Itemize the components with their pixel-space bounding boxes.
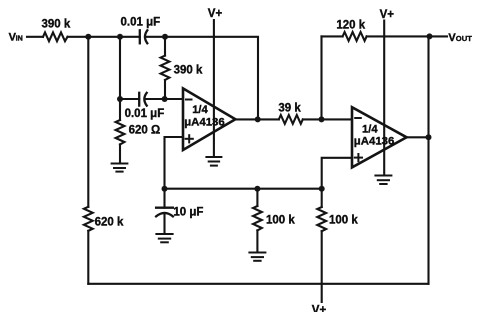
resistor R3 620 ohm (vertical) (116, 99, 161, 163)
svg-text:OUT: OUT (456, 34, 472, 43)
svg-text:1/4: 1/4 (192, 104, 208, 116)
node A junction (85, 34, 91, 40)
svg-text:100 k: 100 k (266, 215, 295, 227)
resistor R5 100 k (left, vertical) (253, 189, 295, 252)
node U1 output junction (255, 116, 261, 122)
wire C1 to node C (145, 36, 165, 38)
svg-text:V+: V+ (380, 9, 395, 21)
wire node E up to R8 (320, 36, 322, 119)
power V+ (top right) (380, 9, 395, 174)
svg-text:390 k: 390 k (42, 19, 71, 31)
node B2 junction (117, 96, 123, 102)
wire U1 plus input (165, 137, 184, 189)
wire corner to R8 (322, 35, 343, 37)
ground (C3 10 uF) (156, 234, 172, 242)
wire R8 to VOUT node (367, 35, 447, 37)
power V+ (top left) (208, 8, 223, 156)
wire R1 to node A (68, 36, 121, 38)
wire node D to U1 inverting input (165, 98, 183, 100)
wire node B down to C2 line (119, 37, 121, 99)
node E junction (U2 inverting) (319, 116, 325, 122)
wire bottom feedback (88, 283, 428, 285)
capacitor C3 10 uF (vertical) (156, 189, 203, 233)
svg-text:V+: V+ (312, 305, 327, 312)
wire node A down left side (87, 37, 89, 207)
svg-text:39 k: 39 k (278, 102, 301, 114)
wire VIN to R1 (27, 36, 43, 38)
svg-text:100 k: 100 k (329, 214, 358, 226)
capacitor C1 0.01 uF (top) (140, 30, 148, 43)
ground (U2 negative supply) (375, 176, 391, 185)
resistor R7 39 k (horizontal) (279, 115, 303, 124)
wire node B to C1 (120, 36, 140, 38)
svg-text:390 k: 390 k (174, 64, 203, 76)
node F junction (10 uF) (162, 186, 168, 192)
wire U2 plus input (322, 158, 352, 189)
svg-text:μA4136: μA4136 (184, 117, 225, 129)
svg-text:120 k: 120 k (336, 19, 365, 31)
node C junction (162, 34, 168, 40)
svg-text:V+: V+ (208, 8, 223, 20)
wire middle horizontal (bias rail) (165, 188, 322, 190)
wire right side vertical (VOUT to bottom) (427, 36, 429, 283)
node G junction (100 k left) (254, 186, 260, 192)
svg-text:IN: IN (16, 33, 23, 42)
svg-text:0.01 μF: 0.01 μF (125, 108, 165, 120)
capacitor C2 0.01 uF (second) (139, 93, 147, 106)
svg-text:620 Ω: 620 Ω (129, 125, 161, 137)
ground (U1 negative supply) (206, 157, 221, 166)
svg-text:620 k: 620 k (95, 216, 124, 228)
node VOUT junction (427, 33, 433, 39)
node VIN label (9, 31, 23, 43)
wire R7 to U2 inverting input (303, 118, 352, 120)
svg-text:1/4: 1/4 (362, 124, 378, 136)
ground (R3 620 ohm) (112, 164, 128, 172)
resistor R2 390 k (feedback, vertical) (161, 37, 203, 99)
resistor R8 120 k (feedback, horizontal) (343, 32, 367, 41)
resistor R1 390 k (input, horizontal) (43, 32, 68, 41)
svg-text:10 μF: 10 μF (173, 206, 203, 218)
resistor R6 100 k (right, vertical) (317, 189, 358, 302)
node H junction (100 k right) (319, 186, 325, 192)
svg-text:0.01 μF: 0.01 μF (121, 17, 161, 29)
op-amp U2 1/4 uA4136 (352, 107, 407, 167)
node VOUT label (448, 32, 472, 44)
node U2 output junction (426, 134, 432, 140)
wire feedback top: node C to above U1 output (165, 37, 258, 120)
wire U2 output (407, 136, 429, 138)
wire U1 output to R7 (235, 118, 278, 120)
resistor R4 620 k (left, vertical) (84, 207, 124, 284)
node B junction (117, 34, 123, 40)
ground (R5 100 k) (249, 253, 265, 261)
op-amp U1 1/4 uA4136 (183, 88, 235, 150)
node D junction (162, 96, 168, 102)
svg-text:μA4136: μA4136 (354, 136, 395, 148)
